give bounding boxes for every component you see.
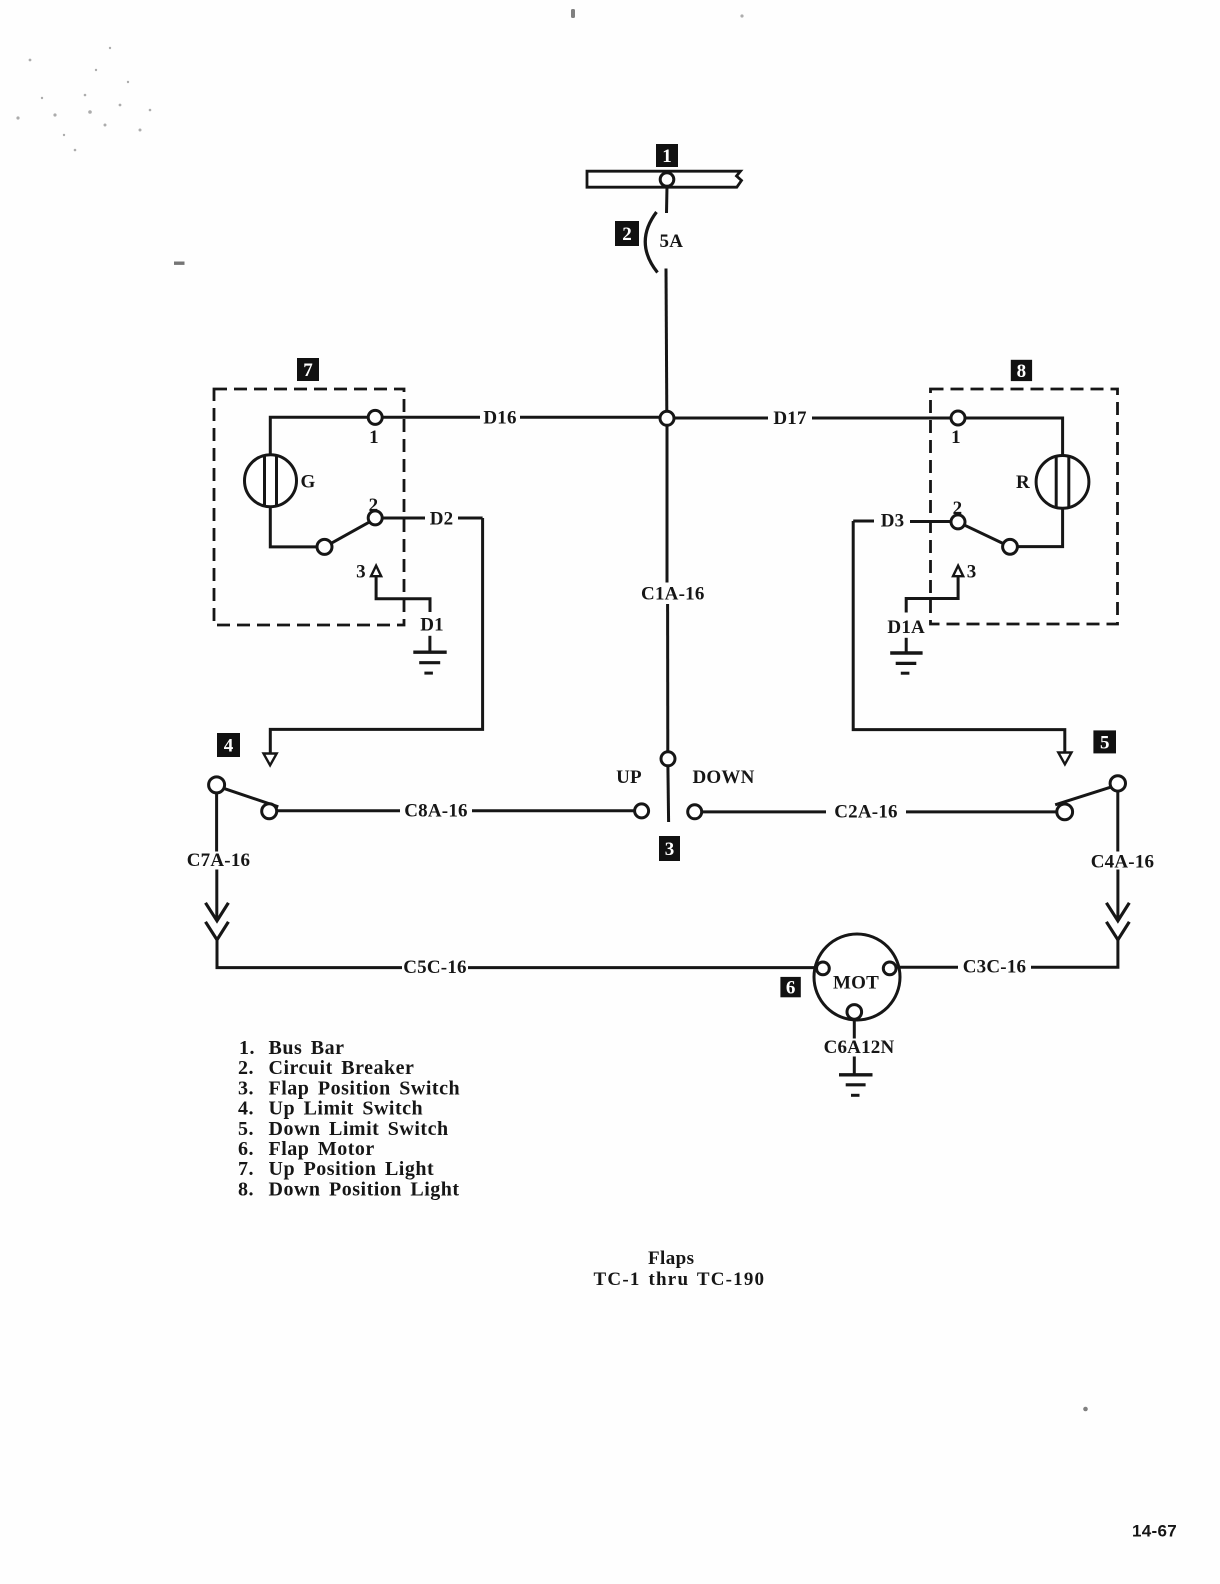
svg-text:5.: 5. [238,1118,254,1140]
wire C2A-16 [702,810,1057,813]
circuit breaker CB (2) [645,212,657,273]
callout 5 (down limit switch) [1093,730,1116,753]
svg-text:Up Limit Switch: Up Limit Switch [269,1098,424,1120]
up position light assembly box (7) dashed [214,389,404,625]
motor terminal right [883,962,896,975]
ground C6A12N [839,1075,873,1096]
svg-text:UP: UP [616,767,642,788]
svg-text:D16: D16 [483,408,516,429]
svg-text:MOT: MOT [833,972,879,993]
wire D3 [853,521,1065,753]
flap switch DOWN terminal [688,805,702,819]
svg-text:D2: D2 [430,509,454,530]
motor terminal bottom [847,1005,862,1020]
svg-text:Flaps: Flaps [648,1248,694,1269]
ground D1 [413,636,446,673]
svg-text:7.: 7. [238,1158,254,1180]
switch blade of light 7 [331,521,372,544]
wire C8A-16 [277,809,635,812]
legend item 5 [238,1118,449,1140]
svg-text:Flap Motor: Flap Motor [269,1138,375,1160]
connector chevrons C7A [206,903,229,940]
svg-text:D17: D17 [773,408,807,429]
connector chevrons C4A [1106,903,1129,940]
svg-text:2.: 2. [238,1057,254,1079]
bus bar (1) [587,171,742,187]
wire terminal1 to lamp G [270,417,368,455]
svg-text:1: 1 [951,427,961,448]
svg-text:3.: 3. [238,1077,254,1099]
arrow into down limit switch [1058,753,1071,765]
arrow into up limit switch [264,754,277,766]
wire breaker to junction [665,269,669,412]
flap position switch wiper node (3) [661,752,675,766]
switch blade of light 8 [963,524,1004,543]
svg-text:C8A-16: C8A-16 [404,801,467,822]
svg-text:Flap Position Switch: Flap Position Switch [269,1077,461,1099]
lamp R [1036,456,1089,509]
svg-text:G: G [301,472,316,493]
callout 7 (up position light) [297,358,319,381]
svg-text:D1: D1 [420,615,444,636]
legend item 8 [238,1178,460,1200]
legend item 6 [238,1138,375,1160]
terminal 2 of light 7 [368,511,382,525]
wire lamp G to switch common [270,507,317,547]
wire C1A-16 [666,425,670,752]
svg-text:Bus Bar: Bus Bar [269,1037,345,1059]
terminal 1 of light 8 [951,411,965,425]
svg-text:C3C-16: C3C-16 [963,957,1026,978]
svg-text:5A: 5A [660,231,684,252]
svg-text:Down Position Light: Down Position Light [269,1178,460,1200]
svg-text:DOWN: DOWN [692,767,754,788]
terminal 1 of light 7 [368,410,382,424]
svg-text:8.: 8. [238,1178,254,1200]
callout 8 (down position light) [1011,360,1032,382]
callout 2 (circuit breaker) [615,221,639,246]
svg-text:R: R [1016,472,1030,493]
callout 3 (flap position switch) [659,836,680,861]
wire D17 [674,417,951,420]
svg-text:6: 6 [786,978,796,999]
up limit switch contact node [262,804,277,819]
lamp G [245,455,297,507]
wire pin3 to ground D1A [906,576,958,612]
callout 4 (up limit switch) [217,733,240,757]
svg-text:C1A-16: C1A-16 [641,584,704,605]
legend item 1 [239,1037,344,1059]
svg-text:Down Limit Switch: Down Limit Switch [269,1118,449,1140]
svg-text:8: 8 [1017,361,1027,382]
wire C6A12N [853,1019,856,1075]
svg-text:4: 4 [224,735,234,756]
svg-text:3: 3 [356,562,366,583]
legend item 7 [238,1158,434,1180]
down limit switch pivot [1110,776,1125,791]
svg-text:C4A-16: C4A-16 [1091,852,1154,873]
wire C5C-16 [217,940,817,968]
legend item 4 [238,1098,423,1120]
up limit switch pivot [209,777,225,793]
wire lamp R to switch common [1017,508,1062,546]
svg-text:C7A-16: C7A-16 [187,850,250,871]
callout 1 (bus bar) [656,144,678,167]
svg-text:1: 1 [369,427,379,448]
svg-text:5: 5 [1100,732,1110,753]
up limit switch blade [224,788,278,806]
svg-text:C2A-16: C2A-16 [834,802,897,823]
svg-text:14-67: 14-67 [1132,1522,1177,1541]
wire D16 [382,416,660,419]
legend item 2 [238,1057,414,1079]
flap position switch blade [666,766,670,822]
flap motor MOT (6) [814,934,900,1020]
svg-text:4.: 4. [238,1098,254,1120]
svg-text:C5C-16: C5C-16 [403,957,466,978]
svg-text:TC-1 thru TC-190: TC-1 thru TC-190 [594,1269,766,1290]
wire C3C-16 [896,940,1118,967]
svg-text:Up Position Light: Up Position Light [269,1158,435,1180]
wire C7A-16 [215,793,218,921]
junction node (D16/D17/C1A) [660,411,674,425]
wire terminal1 to lamp R [965,418,1063,456]
wire bus bar to breaker [665,186,669,213]
callout 6 (flap motor) [780,977,800,999]
legend item 3 [238,1077,460,1099]
wire D2 [270,518,482,754]
svg-text:Circuit Breaker: Circuit Breaker [269,1057,415,1079]
switch common node of light 8 [1003,539,1018,554]
svg-text:D3: D3 [881,511,905,532]
svg-text:3: 3 [967,562,977,583]
bus bar tap node [660,173,674,187]
svg-text:3: 3 [665,839,675,860]
svg-text:7: 7 [303,360,313,381]
svg-text:D1A: D1A [887,617,925,638]
wire C4A-16 [1116,791,1119,920]
switch common node of light 7 [317,539,332,554]
ground D1A [890,638,922,673]
down position light assembly box (8) dashed [931,389,1118,624]
pin 3 arrow of light 7 [371,566,381,577]
svg-text:1: 1 [662,146,672,167]
down limit switch contact node [1057,804,1073,820]
pin 3 arrow of light 8 [953,566,963,577]
terminal 2 of light 8 [951,515,965,529]
motor terminal left [817,962,830,975]
flap switch UP terminal [635,804,649,818]
svg-text:2: 2 [622,224,632,245]
down limit switch blade [1055,787,1110,805]
svg-text:2: 2 [953,498,963,519]
wire pin3 to ground D1 [376,576,430,612]
svg-text:6.: 6. [238,1138,254,1160]
svg-text:C6A12N: C6A12N [824,1037,895,1058]
svg-text:2: 2 [369,495,379,516]
svg-text:1.: 1. [239,1037,255,1059]
